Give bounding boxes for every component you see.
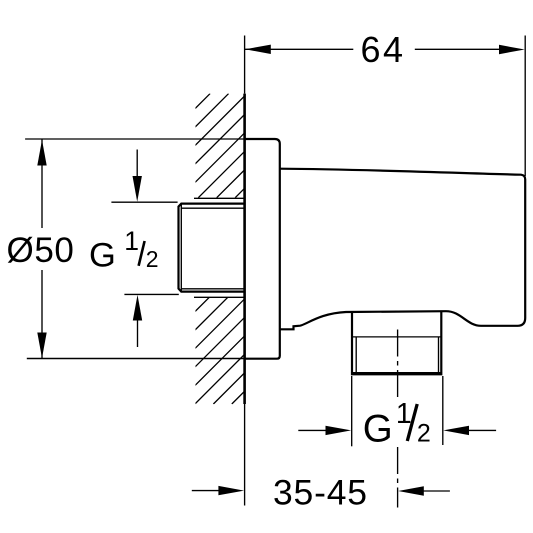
outlet thread minor left (355, 337, 357, 372)
outlet dim extension right (442, 376, 444, 445)
dimension 35-45 arrow left (192, 486, 244, 495)
inlet thread dim arrow down (133, 150, 142, 202)
flange (escutcheon) (245, 139, 280, 359)
svg-text:Ø50: Ø50 (7, 231, 75, 270)
inlet thread G1/2 outer profile (179, 204, 245, 292)
inlet thread dim extension top (111, 201, 177, 203)
wall hole bottom edge (194, 296, 245, 298)
dimension D50 arrow down (37, 333, 46, 359)
inlet thread minor bottom (181, 288, 244, 290)
outlet dim arrow right (443, 426, 496, 435)
svg-text:2: 2 (146, 246, 159, 272)
svg-text:G: G (89, 236, 116, 274)
outlet centerline (397, 330, 399, 508)
outlet thread minor right (438, 337, 440, 372)
svg-text:35-45: 35-45 (273, 472, 368, 512)
dimension 64 extension line right (524, 36, 526, 177)
inlet thread dim extension bottom (124, 293, 178, 295)
dimension 64 arrow right (499, 45, 525, 54)
outlet thread shoulder (352, 336, 441, 338)
wall surface line (244, 36, 246, 506)
dimension D50 line (41, 140, 43, 359)
svg-text:1: 1 (124, 226, 139, 256)
inlet thread chamfer vertical (180, 204, 182, 291)
dimension 64 arrow left (245, 45, 271, 54)
dimension 64 line (245, 48, 499, 50)
outlet boss left edge (351, 311, 353, 372)
svg-text:G: G (363, 407, 393, 450)
outlet boss right edge (440, 311, 442, 372)
outlet dim extension left (351, 376, 353, 446)
inlet thread dim arrow up (133, 295, 142, 347)
inlet thread label slash (139, 241, 145, 266)
dimension 35-45 arrow right (398, 486, 450, 495)
outlet boss bottom face (351, 372, 443, 375)
body outline (280, 169, 525, 330)
dimension D50 extension top (25, 138, 245, 140)
wall hatch lower (103, 297, 339, 404)
svg-text:2: 2 (417, 419, 431, 447)
dimension D50 arrow up (37, 140, 46, 166)
outlet label slash (407, 404, 417, 441)
svg-text:1: 1 (396, 398, 412, 430)
wall hatch upper (106, 94, 339, 198)
inlet thread minor top (181, 207, 244, 209)
svg-text:64: 64 (361, 29, 406, 70)
outlet dim arrow left (298, 426, 351, 435)
wall hole top edge (194, 197, 245, 199)
dimension D50 extension bottom (27, 358, 245, 360)
